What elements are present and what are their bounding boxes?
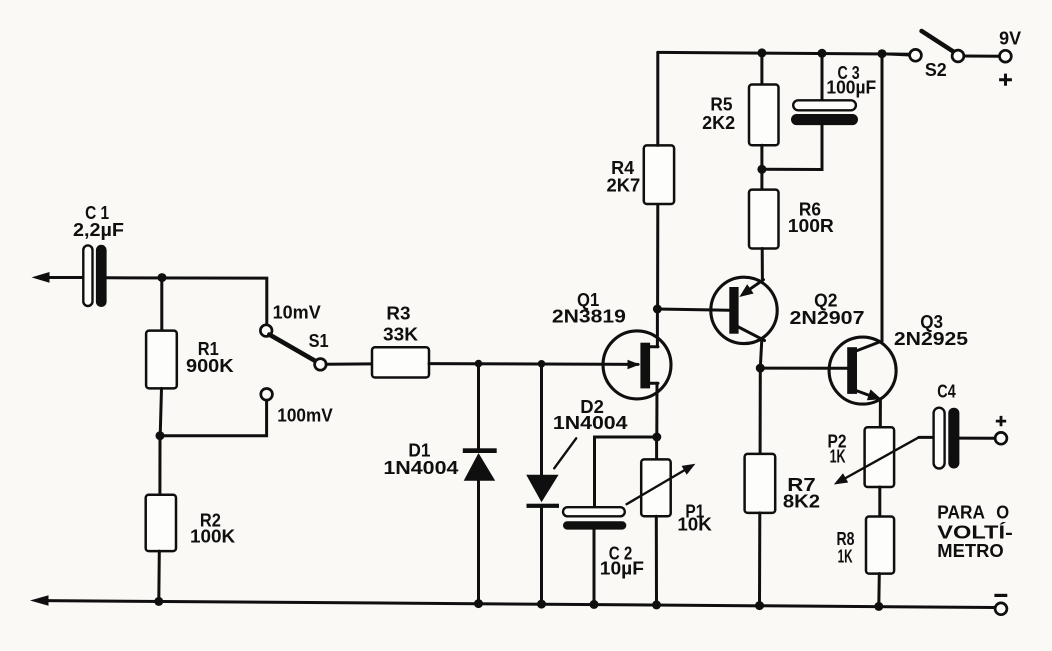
wire Q2 collector down to node F	[760, 340, 762, 369]
node C (Q1 source / C2 / P1)	[652, 433, 661, 442]
svg-text:1N4004: 1N4004	[553, 413, 628, 433]
svg-text:100mV: 100mV	[277, 406, 332, 426]
wire node D to Q2 base	[657, 309, 729, 310]
svg-text:O: O	[996, 502, 1009, 522]
potentiometer P1	[627, 459, 696, 516]
svg-text:2N3819: 2N3819	[552, 307, 626, 327]
wire D2 to ground rail	[540, 508, 543, 604]
wire node D up to R4	[656, 204, 659, 309]
wire P2 wiper to C4	[919, 436, 934, 439]
wire 100mV branch	[160, 400, 267, 436]
resistor R7	[745, 454, 776, 513]
svg-text:2,2µF: 2,2µF	[73, 220, 124, 240]
terminal 9V plus	[1000, 50, 1012, 62]
svg-text:S2: S2	[925, 60, 947, 80]
svg-text:S1: S1	[309, 331, 329, 351]
svg-text:PARA: PARA	[937, 502, 985, 522]
terminal minus	[995, 603, 1007, 615]
wire R6 to Q2 emitter	[761, 249, 764, 281]
node F (Q2 collector / Q3 base / R7)	[756, 364, 765, 373]
pointer line D2 label	[554, 438, 576, 468]
wire Q3 emitter down to P2	[879, 399, 882, 427]
wire node B down to R2	[158, 436, 161, 495]
wire rail to C3	[821, 53, 824, 100]
wire P1 to ground rail	[655, 516, 658, 605]
wire Q3 collector up to rail	[881, 54, 884, 342]
wire C2 branch from node C	[595, 437, 657, 507]
svg-text:10µF: 10µF	[600, 558, 644, 578]
wire down to D2	[540, 364, 543, 475]
node rail C2	[590, 600, 599, 609]
wire R7 to ground rail	[758, 513, 761, 606]
svg-text:2N2907: 2N2907	[790, 308, 865, 328]
node R5 top	[757, 48, 766, 57]
node rail R8	[874, 602, 883, 611]
svg-text:10K: 10K	[677, 514, 712, 534]
terminal S1 common	[315, 359, 327, 371]
switch S1 arm	[269, 335, 316, 362]
svg-text:METRO: METRO	[937, 541, 1003, 561]
terminal output plus	[995, 432, 1007, 444]
wire D1 to ground rail	[477, 481, 480, 604]
wire C4 to output terminal	[959, 437, 995, 440]
svg-text:1K: 1K	[838, 547, 853, 567]
node rail D1	[474, 599, 483, 608]
wire node A down to R1	[160, 278, 163, 331]
wire Q1 drain up / R4 chain	[656, 309, 659, 347]
terminal S1 10mV	[260, 325, 272, 337]
resistor R5	[749, 85, 779, 146]
wire node C to P1	[655, 437, 658, 459]
svg-text:33K: 33K	[383, 324, 418, 344]
svg-text:C4: C4	[937, 382, 955, 402]
svg-text:900K: 900K	[186, 356, 234, 376]
svg-text:8K2: 8K2	[783, 491, 820, 511]
wire S1 to R3	[326, 362, 372, 365]
wire C2 to ground rail	[593, 530, 596, 605]
wire rail to R5	[760, 53, 763, 85]
wire R3 to Q1 gate	[429, 362, 638, 366]
wire input top-left with arrow	[32, 272, 84, 283]
minus sign	[994, 594, 1007, 597]
wire C3 down and left to node E	[762, 125, 822, 169]
resistor R4	[644, 145, 674, 204]
transistor Q3 (2N2925)	[829, 337, 896, 404]
svg-text:1K: 1K	[830, 447, 846, 467]
node D2 junction	[538, 360, 546, 368]
plus sign (output)	[996, 416, 1006, 426]
transistor Q2 (2N2907)	[711, 277, 777, 343]
resistor R2	[146, 495, 176, 551]
top supply rail	[658, 52, 910, 54]
wire node E to R6	[760, 169, 763, 189]
svg-text:2K2: 2K2	[702, 113, 735, 133]
capacitor C1	[83, 245, 106, 307]
resistor R3	[372, 347, 429, 377]
wire R5 to node E	[760, 145, 763, 169]
wire R2 to ground rail	[157, 551, 161, 601]
switch S2	[882, 31, 1000, 62]
svg-text:100µF: 100µF	[826, 78, 876, 98]
ground rail bottom	[30, 595, 995, 607]
wire P2 to R8	[878, 487, 881, 517]
node D (Q1 drain / R4 / Q2 base)	[653, 305, 662, 314]
node C3 top	[818, 49, 827, 58]
node Q3 collector rail	[878, 49, 887, 58]
resistor R6	[749, 190, 779, 249]
plus sign (9V)	[999, 74, 1012, 86]
resistor R1	[146, 331, 177, 389]
diode D1	[463, 448, 497, 480]
wire Q1 source down to node C	[655, 383, 658, 437]
resistor R8	[866, 517, 894, 574]
svg-text:R5: R5	[710, 94, 732, 114]
terminal 100mV	[261, 389, 273, 401]
svg-text:2N2925: 2N2925	[894, 329, 968, 349]
svg-text:VOLTÍ-: VOLTÍ-	[937, 522, 1013, 543]
node rail P1	[652, 600, 661, 609]
wire node F to Q3 base	[760, 367, 847, 370]
svg-text:9V: 9V	[999, 29, 1021, 49]
wire R8 to ground rail	[877, 574, 881, 607]
node A (C1 / R1 / S1)	[158, 273, 167, 282]
wire down to D1	[477, 364, 480, 449]
diode D2	[526, 475, 559, 508]
wire R4 to top rail	[656, 52, 659, 145]
capacitor C4	[934, 408, 960, 469]
node E (R5 / R6 / C3)	[757, 165, 766, 174]
transistor Q1 (FET 2N3819)	[603, 331, 671, 399]
capacitor C2	[563, 507, 626, 529]
node rail R7	[755, 601, 764, 610]
node rail D2	[537, 600, 546, 609]
node D1 junction	[475, 360, 483, 368]
svg-text:R3: R3	[386, 304, 410, 324]
svg-text:1N4004: 1N4004	[383, 458, 458, 478]
svg-text:2K7: 2K7	[607, 175, 641, 195]
node B (R1 / R2 / 100mV)	[156, 431, 165, 440]
potentiometer P2	[834, 427, 919, 487]
wire C1 to node and to S1 corner	[107, 278, 267, 325]
svg-text:10mV: 10mV	[273, 302, 321, 322]
capacitor C3	[791, 100, 858, 125]
wire node F to R7	[759, 368, 762, 454]
svg-text:100R: 100R	[788, 216, 834, 236]
wire R1 to node B	[160, 388, 161, 435]
node rail R2	[154, 597, 163, 606]
svg-text:100K: 100K	[190, 526, 235, 546]
